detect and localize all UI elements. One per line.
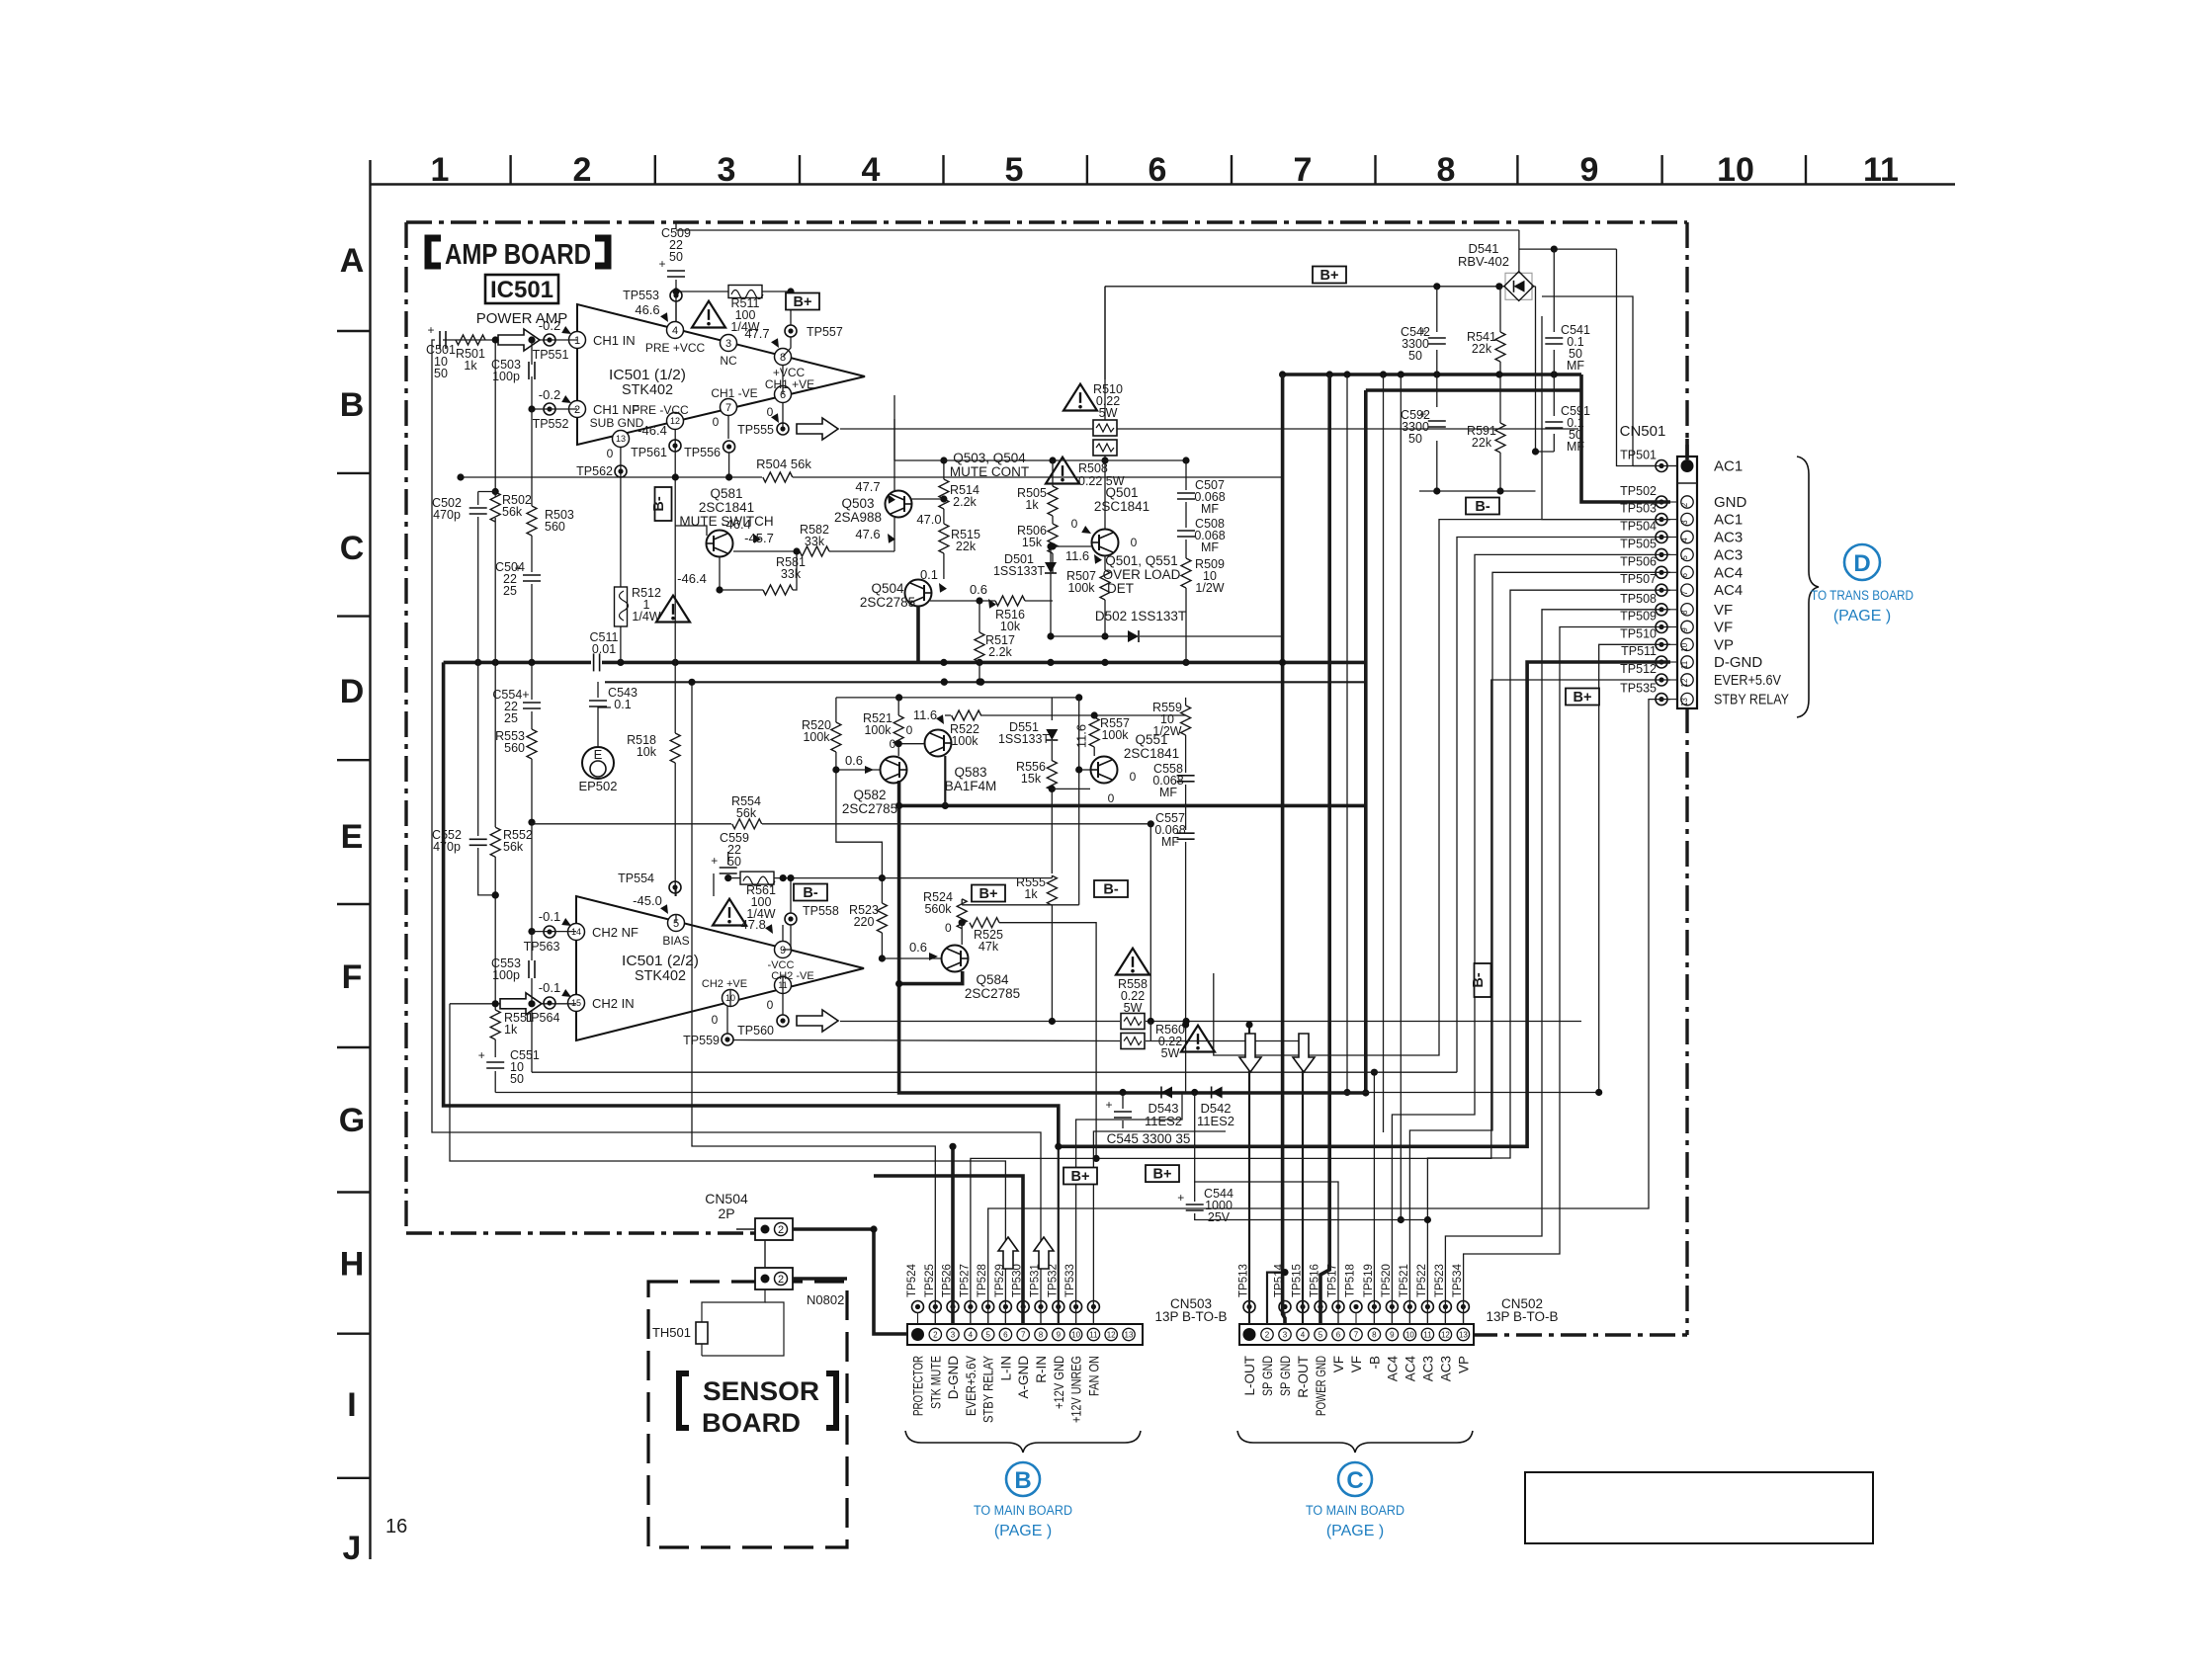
- CN501 pin labels: [1714, 458, 1789, 708]
- page number 16: [385, 1516, 407, 1537]
- test point TP557: [744, 325, 843, 350]
- boxed resistor R558b: [1121, 1014, 1145, 1030]
- svg-text:A: A: [340, 242, 365, 280]
- svg-text:2SC1841: 2SC1841: [1124, 746, 1179, 761]
- wire thick D bus: [444, 661, 1366, 665]
- AMP BOARD border top: [406, 220, 1687, 223]
- svg-text:VF: VF: [1331, 1356, 1346, 1372]
- signal arrow ch2 in: [500, 993, 542, 1015]
- svg-text:2SC1841: 2SC1841: [699, 500, 754, 515]
- svg-text:B-: B-: [803, 885, 817, 901]
- Q581 labels: [679, 486, 773, 529]
- test point TP564: [524, 980, 573, 1025]
- CN501 label: [1620, 423, 1666, 440]
- down arrow 3: [1293, 1034, 1315, 1072]
- svg-text:2: 2: [933, 1331, 938, 1340]
- wire ch1 input: [443, 339, 577, 341]
- svg-text:0: 0: [1071, 517, 1078, 531]
- svg-text:TP533: TP533: [1064, 1264, 1076, 1297]
- fusible resistor R512: [615, 586, 661, 626]
- svg-text:11.6: 11.6: [1074, 724, 1089, 748]
- pin 9: [768, 942, 795, 972]
- resistor R520: [802, 718, 841, 752]
- svg-text:3: 3: [725, 338, 731, 350]
- svg-text:D: D: [340, 673, 365, 710]
- svg-text:Q501, Q551: Q501, Q551: [1105, 553, 1178, 568]
- svg-text:12: 12: [1441, 1331, 1450, 1340]
- svg-text:47.6: 47.6: [855, 527, 880, 541]
- svg-text:0: 0: [713, 415, 720, 429]
- fusible resistor R561: [728, 872, 881, 921]
- svg-text:B-: B-: [1471, 972, 1487, 987]
- svg-text:TP507: TP507: [1620, 572, 1657, 586]
- resistor R507: [1066, 555, 1110, 640]
- svg-text:+: +: [427, 323, 434, 337]
- svg-text:AC3: AC3: [1714, 530, 1743, 546]
- signal arrow ch1 out: [797, 418, 1578, 440]
- capacitor C551: [478, 1048, 540, 1093]
- svg-text:7: 7: [1680, 590, 1689, 595]
- wire AC1 pin1: [1542, 296, 1677, 466]
- voltage 0.1: [920, 567, 947, 593]
- svg-text:25: 25: [504, 711, 518, 725]
- svg-text:5: 5: [1005, 151, 1024, 189]
- CN503 brace: [905, 1431, 1141, 1453]
- test point TP551: [533, 318, 573, 362]
- wire AC4 staircase a: [1409, 572, 1670, 1324]
- svg-text:-0.2: -0.2: [539, 318, 560, 333]
- pin 4: [645, 322, 706, 356]
- svg-text:11.6: 11.6: [913, 707, 937, 722]
- svg-text:TP510: TP510: [1620, 626, 1657, 640]
- svg-text:5: 5: [1680, 555, 1689, 560]
- capacitor C559: [711, 831, 749, 881]
- wire CN504 lower out: [793, 1277, 847, 1281]
- pin 6: [765, 377, 814, 403]
- capacitor C553: [491, 932, 536, 1008]
- svg-text:STK MUTE: STK MUTE: [928, 1356, 943, 1409]
- svg-text:TP524: TP524: [906, 1264, 918, 1297]
- capacitor C591: [1545, 404, 1590, 454]
- svg-text:22k: 22k: [956, 540, 977, 553]
- wire Q501 base: [1053, 545, 1091, 547]
- wire +12VGND riser: [1055, 1143, 1062, 1324]
- wire VF staircase a: [1445, 610, 1670, 1324]
- resistor R523: [849, 874, 887, 962]
- CN501 brace: [1797, 457, 1819, 717]
- svg-text:47.7: 47.7: [744, 326, 769, 341]
- wire bus to CN501 GND: [1581, 374, 1670, 502]
- svg-text:SUB GND: SUB GND: [590, 416, 644, 430]
- svg-text:D: D: [1853, 550, 1870, 577]
- signal arrow ch1 in: [498, 329, 540, 351]
- svg-text:12: 12: [670, 416, 680, 426]
- pin 14: [568, 924, 639, 941]
- svg-text:EVER+5.6V: EVER+5.6V: [964, 1356, 978, 1416]
- svg-text:-45.0: -45.0: [633, 893, 662, 908]
- resistor R555: [881, 875, 1057, 1022]
- grid row letters: [339, 242, 365, 1567]
- resistor R502: [490, 492, 532, 522]
- svg-text:-45.7: -45.7: [744, 531, 774, 545]
- resistor R554: [731, 794, 762, 829]
- svg-text:33k: 33k: [805, 535, 825, 548]
- wire Q583 emitter: [944, 756, 946, 805]
- svg-text:9: 9: [780, 945, 786, 956]
- pin 12: [632, 403, 689, 430]
- wire pin13 down: [620, 448, 622, 662]
- svg-text:TP558: TP558: [803, 904, 839, 918]
- B- rot right: [1471, 963, 1491, 997]
- svg-text:TP508: TP508: [1620, 592, 1657, 606]
- wire mid verticals: [836, 698, 1186, 905]
- boxed resistor R560b: [1121, 1034, 1145, 1049]
- svg-text:+: +: [1105, 1098, 1112, 1112]
- B- box f2: [1094, 880, 1128, 898]
- wire pin7 down: [713, 415, 728, 439]
- test point TP555: [737, 423, 789, 437]
- svg-text:TP509: TP509: [1620, 610, 1657, 623]
- wire B- rail: [1419, 487, 1536, 494]
- transistor Q551: [1075, 732, 1179, 805]
- test point TP562: [576, 447, 627, 478]
- title block rectangle: [1525, 1472, 1873, 1543]
- svg-text:8: 8: [1372, 1331, 1377, 1340]
- svg-text:AC4: AC4: [1385, 1356, 1400, 1382]
- wire Q584 out: [895, 971, 963, 987]
- voltage -47.8: [736, 917, 776, 936]
- svg-text:TP554: TP554: [618, 872, 654, 885]
- overload label: [1103, 553, 1181, 596]
- warning R558: [1116, 949, 1149, 1015]
- svg-text:B+: B+: [1574, 690, 1592, 706]
- test point TP563: [524, 909, 573, 954]
- svg-text:2P: 2P: [718, 1205, 734, 1221]
- svg-text:FAN ON: FAN ON: [1086, 1356, 1101, 1396]
- svg-text:0: 0: [906, 723, 913, 737]
- boxed resistor R508: [1093, 440, 1117, 530]
- capacitor C544: [1177, 1093, 1431, 1225]
- voltage -45.7 b: [733, 531, 797, 551]
- grid ruler top line: [371, 183, 1956, 185]
- voltage 47.6 q: [855, 527, 895, 543]
- svg-text:8: 8: [1680, 610, 1689, 615]
- svg-text:AC3: AC3: [1438, 1356, 1453, 1381]
- svg-text:1SS133T: 1SS133T: [993, 564, 1045, 578]
- svg-text:MF: MF: [1567, 440, 1584, 454]
- C545 label: [1107, 1131, 1191, 1146]
- svg-text:10: 10: [1680, 642, 1689, 651]
- svg-text:VP: VP: [1714, 636, 1734, 653]
- svg-text:1k: 1k: [1025, 498, 1039, 512]
- svg-text:AC3: AC3: [1420, 1356, 1435, 1381]
- svg-text:16: 16: [385, 1516, 407, 1537]
- svg-text:BIAS: BIAS: [662, 934, 689, 948]
- svg-text:TP562: TP562: [576, 464, 613, 478]
- svg-text:B+: B+: [1320, 268, 1339, 284]
- svg-text:B-: B-: [1475, 499, 1489, 515]
- wire pin4 up: [675, 301, 677, 322]
- svg-text:CH2 IN: CH2 IN: [592, 996, 635, 1011]
- svg-text:56k: 56k: [503, 840, 524, 854]
- wire CN504 stack: [764, 1240, 766, 1268]
- wire thin vert 1399: [1383, 374, 1385, 1132]
- svg-text:13: 13: [1680, 698, 1689, 706]
- junction dot CN504: [870, 1225, 877, 1232]
- wire mute cont rail: [894, 419, 1190, 464]
- svg-text:MF: MF: [1159, 786, 1177, 799]
- svg-text:100k: 100k: [803, 730, 830, 744]
- svg-text:6: 6: [1680, 573, 1689, 578]
- svg-text:3: 3: [951, 1331, 956, 1340]
- svg-text:B: B: [1014, 1467, 1031, 1494]
- wire thick protector: [793, 1229, 907, 1334]
- svg-text:AC3: AC3: [1714, 546, 1743, 563]
- svg-text:0: 0: [767, 998, 774, 1012]
- test point TP552: [533, 387, 573, 431]
- svg-text:NC: NC: [720, 354, 737, 368]
- svg-text:VF: VF: [1349, 1356, 1364, 1372]
- svg-text:L-IN: L-IN: [998, 1356, 1013, 1381]
- connector CN501: [1677, 457, 1697, 708]
- junction dots B+ bus: [1279, 371, 1558, 377]
- wire rail A2: [1519, 230, 1656, 466]
- svg-text:0: 0: [1108, 791, 1115, 805]
- resistor R522: [950, 710, 981, 748]
- wire STBY riser: [988, 700, 1670, 1324]
- svg-text:-47.8: -47.8: [736, 917, 766, 932]
- svg-text:R508: R508: [1078, 461, 1108, 475]
- B+ box bottom2: [1146, 1165, 1179, 1183]
- test point TP554: [618, 872, 681, 916]
- svg-text:TP504: TP504: [1620, 520, 1657, 534]
- svg-text:IC501: IC501: [490, 277, 553, 303]
- transistor Q584: [942, 946, 1021, 1002]
- wire ch2 input: [450, 1003, 576, 1005]
- svg-text:G: G: [339, 1102, 365, 1139]
- svg-text:8: 8: [1039, 1331, 1044, 1340]
- op-amp U2 IC501(2/2) triangle: [576, 896, 864, 1040]
- svg-text:TP527: TP527: [959, 1264, 971, 1297]
- test point TP559: [683, 1006, 733, 1047]
- svg-text:B+: B+: [794, 294, 812, 310]
- capacitor C511: [590, 630, 619, 671]
- svg-text:VF: VF: [1714, 602, 1733, 619]
- svg-text:6: 6: [1336, 1331, 1341, 1340]
- B- box rotated: [651, 487, 672, 521]
- wire AC3 staircase a: [532, 538, 1670, 1325]
- svg-text:AC1: AC1: [1714, 512, 1743, 529]
- svg-text:10k: 10k: [1000, 620, 1021, 633]
- svg-text:+: +: [658, 257, 665, 271]
- svg-text:R504 56k: R504 56k: [756, 457, 811, 471]
- wire left col: [478, 336, 536, 662]
- CN501 test points: [1620, 449, 1677, 706]
- warning R560: [1181, 1026, 1215, 1052]
- connector CN504 label: [705, 1191, 748, 1221]
- wire +12VUNREG riser: [1076, 1092, 1182, 1324]
- wire SP GND riser: [1267, 1269, 1289, 1324]
- svg-text:10: 10: [1405, 1331, 1414, 1340]
- signal arrow ch2 out: [797, 1010, 838, 1032]
- wire out line 1037: [840, 1018, 1581, 1025]
- svg-text:2.2k: 2.2k: [953, 495, 977, 509]
- voltage 0.6 q504: [970, 582, 996, 609]
- svg-text:2.2k: 2.2k: [988, 645, 1012, 659]
- wire Q582 base: [832, 766, 880, 773]
- svg-text:4: 4: [1301, 1331, 1306, 1340]
- up arrow 2: [1034, 1237, 1054, 1269]
- svg-text:25V: 25V: [1208, 1210, 1231, 1224]
- capacitor C543: [589, 682, 638, 711]
- svg-text:TP535: TP535: [1620, 682, 1657, 696]
- resistor R552: [490, 662, 533, 1010]
- test point TP561: [631, 423, 681, 459]
- svg-text:2: 2: [1680, 502, 1689, 507]
- svg-text:13P B-TO-B: 13P B-TO-B: [1486, 1309, 1558, 1324]
- svg-text:TP519: TP519: [1363, 1264, 1375, 1297]
- AMP BOARD border bottom left: [406, 1231, 757, 1234]
- grid column numbers: [431, 151, 1899, 189]
- svg-text:11: 11: [1863, 151, 1899, 189]
- svg-text:1k: 1k: [504, 1023, 518, 1037]
- B+ box 1: [786, 293, 819, 311]
- voltage 11.6 a: [1065, 548, 1102, 564]
- rectifier D541: [1504, 272, 1534, 301]
- svg-text:50: 50: [727, 855, 741, 869]
- svg-text:TP556: TP556: [684, 446, 721, 459]
- transistor Q501: [1071, 517, 1138, 556]
- svg-text:Q503, Q504: Q503, Q504: [953, 451, 1026, 465]
- wire VF staircase b: [1464, 627, 1670, 1325]
- svg-text:PRE -VCC: PRE -VCC: [632, 403, 689, 417]
- svg-text:MF: MF: [1201, 540, 1219, 554]
- svg-text:2: 2: [574, 404, 580, 416]
- resistor R559: [1152, 701, 1191, 738]
- op-amp U1 IC501(1/2) triangle: [577, 304, 865, 445]
- svg-text:22k: 22k: [1472, 342, 1492, 356]
- svg-text:CH2 +VE: CH2 +VE: [702, 978, 747, 990]
- svg-text:STK402: STK402: [635, 967, 686, 984]
- svg-text:Q503: Q503: [841, 496, 874, 511]
- wire R-IN riser: [432, 340, 1041, 1324]
- svg-text:BOARD: BOARD: [702, 1408, 801, 1438]
- wire thick corner 909: [899, 781, 1370, 1097]
- svg-text:25: 25: [503, 584, 517, 598]
- svg-text:220: 220: [854, 915, 875, 929]
- svg-text:4: 4: [672, 325, 678, 337]
- svg-text:TP515: TP515: [1292, 1264, 1304, 1297]
- pin 11: [771, 970, 813, 994]
- wire L-OUT riser: [1245, 1021, 1252, 1324]
- svg-text:TP557: TP557: [807, 325, 843, 339]
- svg-text:10: 10: [1071, 1331, 1080, 1340]
- wire B- sub bus: [1366, 388, 1581, 392]
- up arrow 1: [998, 1237, 1018, 1269]
- svg-text:4: 4: [969, 1331, 974, 1340]
- svg-text:33k: 33k: [781, 567, 802, 581]
- wire thin vert 1417: [1398, 374, 1404, 1223]
- svg-text:TP511: TP511: [1621, 644, 1657, 658]
- svg-text:TP552: TP552: [533, 417, 569, 431]
- svg-text:11: 11: [1423, 1331, 1432, 1340]
- svg-text:PRE +VCC: PRE +VCC: [645, 341, 706, 355]
- resistor R551: [490, 1000, 534, 1057]
- capacitor C504: [495, 560, 541, 598]
- svg-text:3: 3: [718, 151, 736, 189]
- svg-text:2: 2: [1265, 1331, 1270, 1340]
- wire Q503 coupling: [893, 395, 895, 551]
- svg-text:I: I: [347, 1386, 356, 1424]
- svg-text:1k: 1k: [464, 359, 477, 373]
- capacitor C509: [658, 226, 690, 277]
- svg-text:100p: 100p: [492, 968, 520, 982]
- svg-text:TO MAIN BOARD: TO MAIN BOARD: [974, 1503, 1072, 1518]
- svg-text:7: 7: [1021, 1331, 1026, 1340]
- svg-text:47.0: 47.0: [916, 512, 941, 527]
- B+ box f: [972, 885, 1005, 903]
- svg-text:2SC1841: 2SC1841: [1094, 499, 1149, 514]
- svg-text:TP512: TP512: [1620, 662, 1657, 676]
- svg-text:5W: 5W: [1099, 406, 1118, 420]
- wire thick vert 1381: [1364, 390, 1368, 1093]
- svg-text:9: 9: [1057, 1331, 1062, 1340]
- svg-text:R-IN: R-IN: [1034, 1356, 1049, 1383]
- svg-text:0.6: 0.6: [845, 753, 863, 768]
- svg-text:560k: 560k: [924, 902, 952, 916]
- svg-text:E: E: [341, 818, 364, 856]
- svg-text:2SC2785: 2SC2785: [842, 801, 897, 816]
- svg-text:13P B-TO-B: 13P B-TO-B: [1154, 1309, 1227, 1324]
- capacitor C541: [1545, 323, 1590, 373]
- resistor R509: [1181, 540, 1225, 664]
- node B to main board: [974, 1462, 1072, 1539]
- wire pin10/11: [730, 976, 783, 1006]
- svg-text:TP561: TP561: [631, 446, 667, 459]
- svg-text:C: C: [340, 530, 365, 567]
- capacitor C545: [1105, 1093, 1132, 1129]
- svg-text:10k: 10k: [637, 745, 657, 759]
- warning triangle 1: [692, 301, 725, 328]
- svg-text:50: 50: [510, 1072, 524, 1086]
- pin 2: [569, 401, 640, 418]
- svg-text:D-GND: D-GND: [1714, 654, 1762, 671]
- wire Q583 base: [895, 740, 924, 747]
- capacitor C552: [432, 662, 499, 898]
- svg-text:100k: 100k: [951, 734, 978, 748]
- pin 1: [569, 332, 636, 349]
- svg-text:13: 13: [1459, 1331, 1468, 1340]
- grid row ticks: [337, 331, 371, 1478]
- test point TP556: [684, 441, 734, 477]
- svg-text:100k: 100k: [1101, 728, 1129, 742]
- pin 10: [702, 978, 747, 1007]
- voltage 0.6 q584: [909, 940, 938, 960]
- svg-text:AC4: AC4: [1403, 1356, 1417, 1382]
- pin 15: [568, 995, 635, 1012]
- svg-text:2SC2785: 2SC2785: [860, 595, 915, 610]
- IC501(1/2) label: [609, 367, 686, 398]
- svg-text:0.1: 0.1: [614, 698, 631, 711]
- svg-text:STBY RELAY: STBY RELAY: [1714, 692, 1789, 708]
- svg-text:9: 9: [1580, 151, 1599, 189]
- svg-text:R-OUT: R-OUT: [1296, 1356, 1311, 1398]
- B- box f: [794, 884, 827, 902]
- transistor Q503: [886, 491, 912, 518]
- transistor Q581: [675, 526, 733, 557]
- B- box mid: [1466, 498, 1499, 516]
- svg-text:H: H: [340, 1246, 365, 1284]
